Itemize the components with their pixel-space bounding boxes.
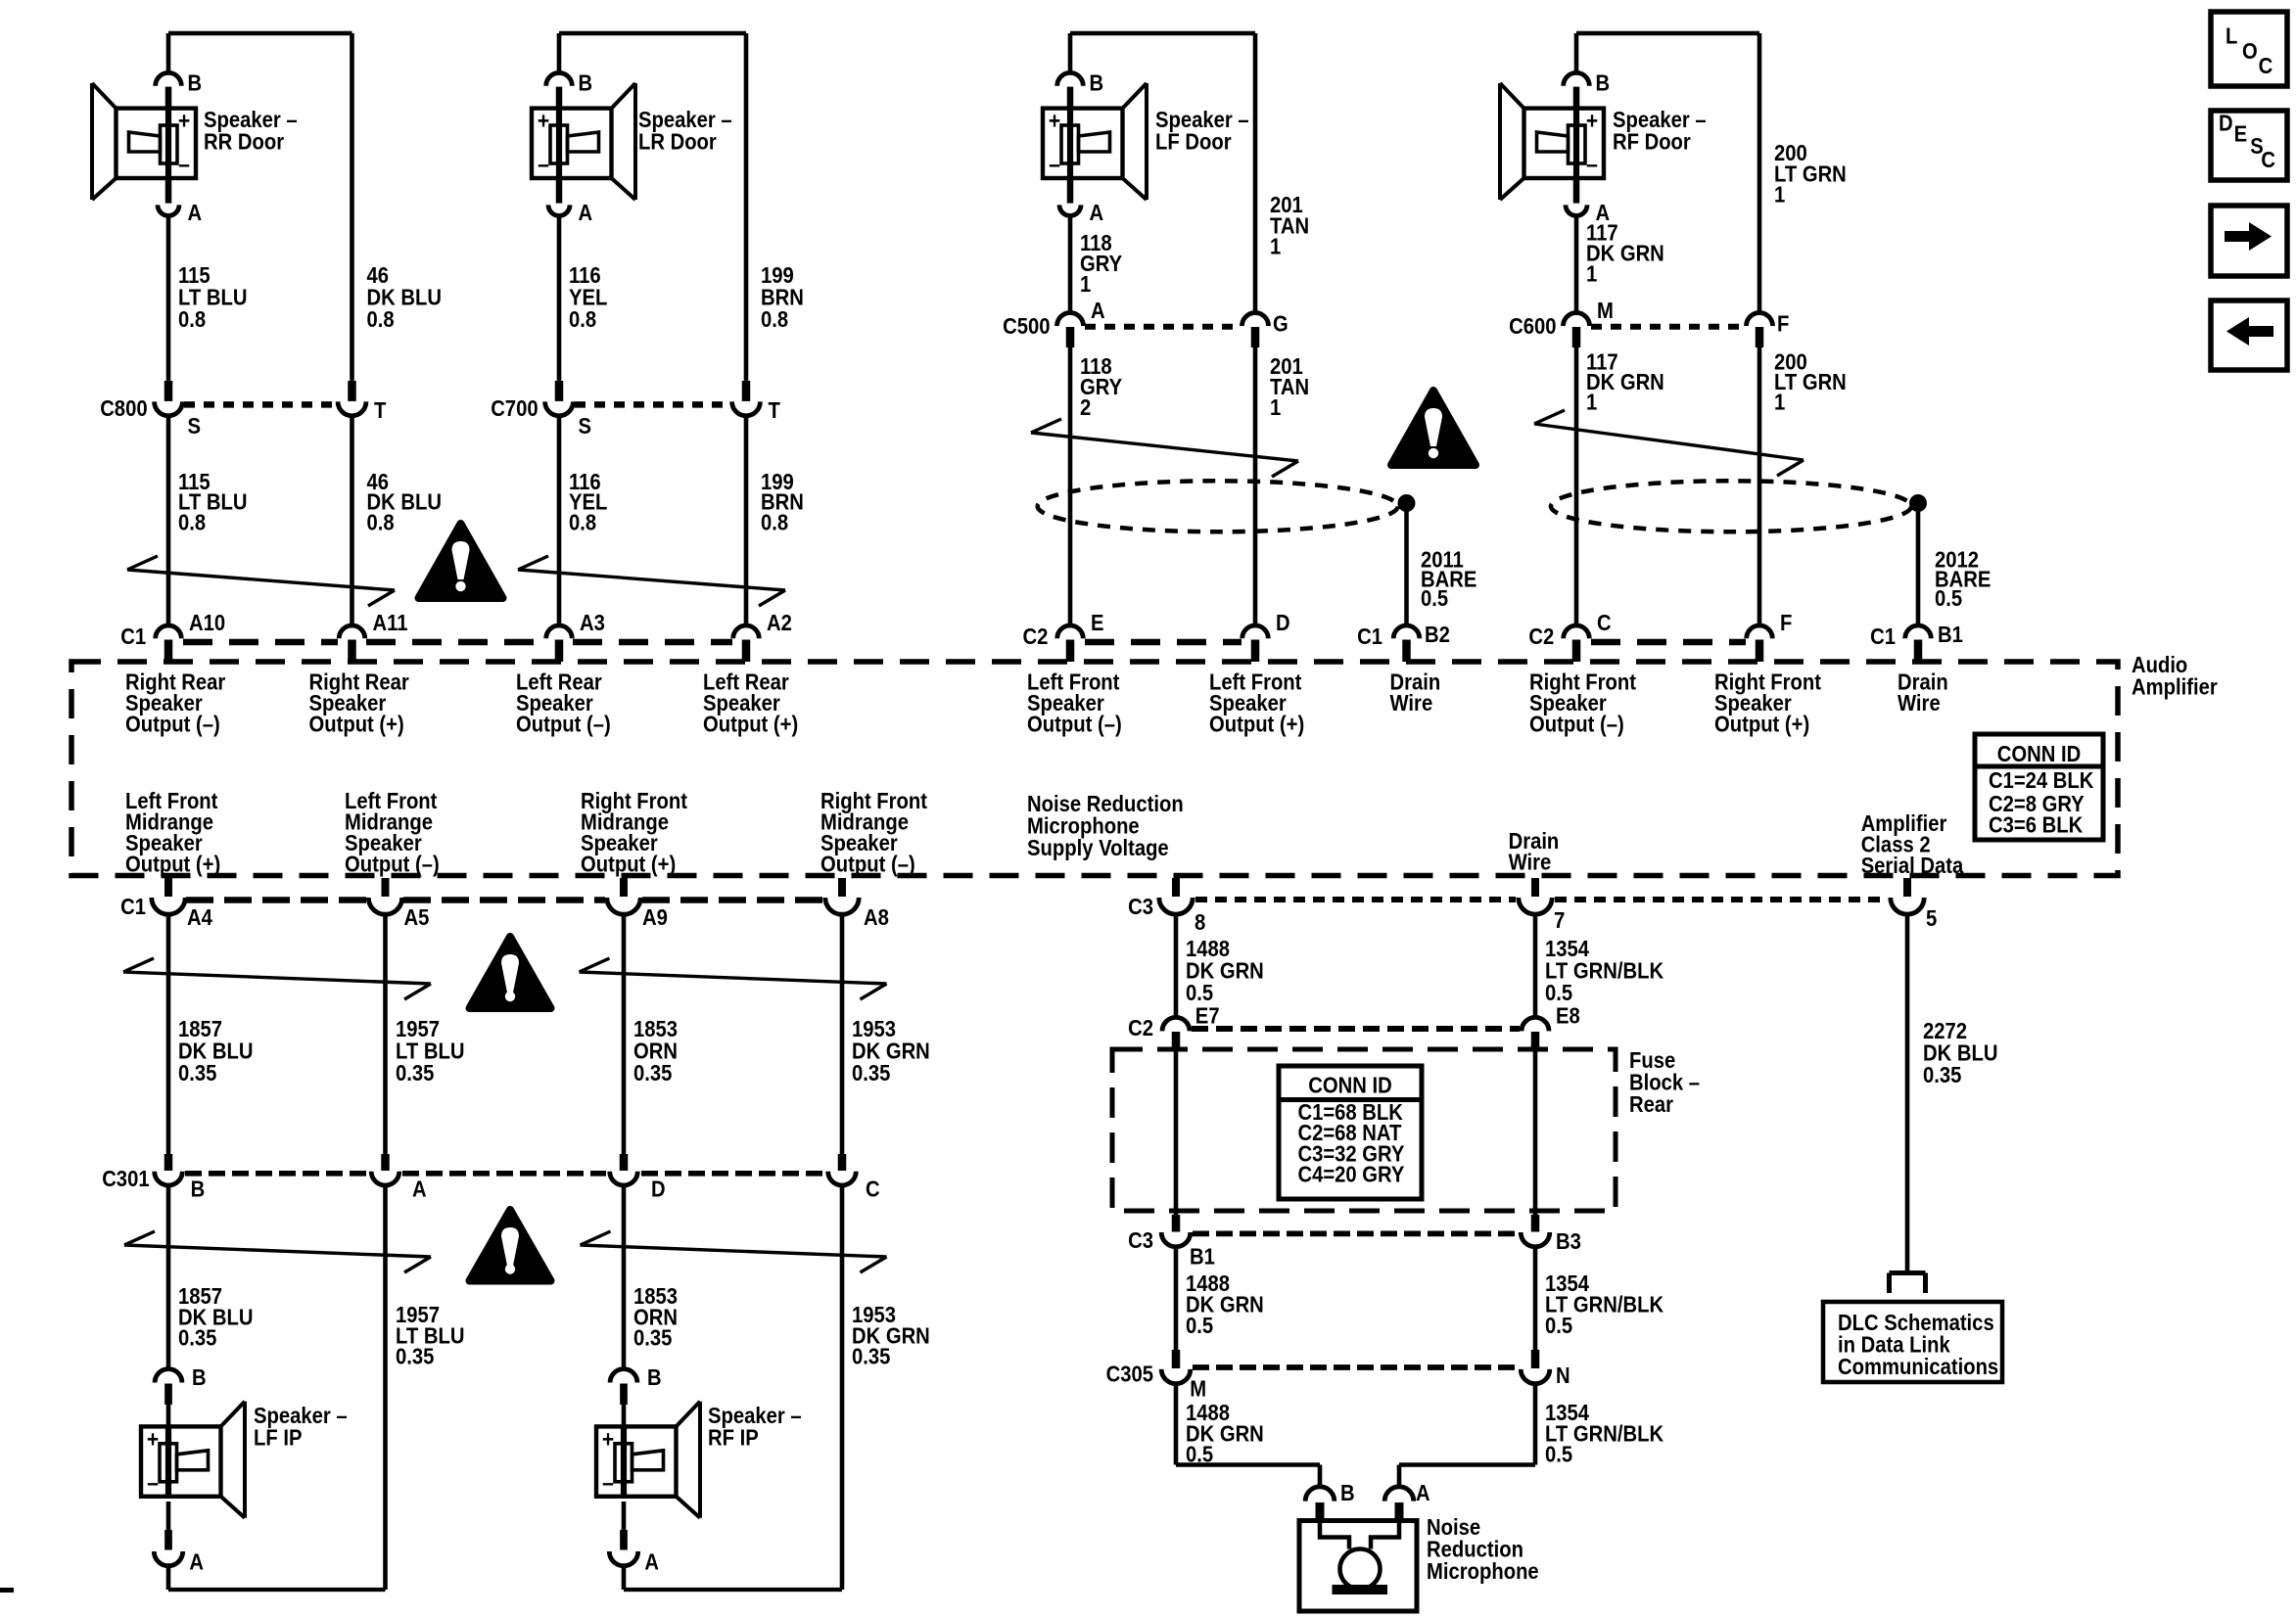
svg-text:G: G bbox=[1273, 311, 1289, 337]
svg-text:0.8: 0.8 bbox=[178, 306, 206, 332]
audio amplifier box bbox=[71, 662, 2118, 876]
svg-text:A11: A11 bbox=[373, 610, 408, 635]
svg-text:0.5: 0.5 bbox=[1186, 1442, 1213, 1467]
wire label 1354 c bbox=[1545, 1400, 1663, 1467]
amplifier pin label Left Front Midrange (+) bbox=[125, 788, 220, 877]
svg-text:LF Door: LF Door bbox=[1155, 129, 1232, 155]
svg-text:8: 8 bbox=[1195, 909, 1205, 935]
connector C800 bbox=[100, 381, 386, 439]
svg-text:0.35: 0.35 bbox=[178, 1060, 217, 1086]
svg-text:1: 1 bbox=[1586, 261, 1597, 287]
shield ellipse RF bbox=[1551, 481, 1927, 531]
wire label 1488 b bbox=[1186, 1270, 1264, 1338]
wire below LF IP bbox=[166, 1565, 171, 1590]
connector C2 amplifier pins E D bbox=[1023, 610, 1290, 662]
twisted wires arrow RR bbox=[127, 556, 395, 606]
svg-text:0.8: 0.8 bbox=[761, 509, 788, 534]
drain wire 2012 BARE bbox=[1918, 503, 1991, 626]
svg-text:0.8: 0.8 bbox=[761, 306, 788, 332]
svg-text:B: B bbox=[1090, 69, 1104, 95]
svg-text:Output (–): Output (–) bbox=[345, 852, 440, 877]
connector pin B LR Door bbox=[546, 69, 592, 108]
svg-text:C: C bbox=[866, 1177, 880, 1202]
label speaker LR Door bbox=[638, 107, 732, 155]
connector pin B RF Door bbox=[1564, 69, 1610, 108]
svg-text:C305: C305 bbox=[1106, 1362, 1154, 1387]
wire 1354 run 1 bbox=[1533, 914, 1538, 1019]
svg-text:E: E bbox=[1091, 610, 1104, 635]
amplifier pin label Right Front Midrange (+) bbox=[581, 788, 687, 877]
svg-text:0.35: 0.35 bbox=[396, 1060, 435, 1086]
wire label 1953 upper bbox=[852, 1016, 930, 1086]
connector pin 5 bbox=[1891, 878, 1938, 931]
svg-text:T: T bbox=[374, 397, 386, 423]
amplifier pin label Right Rear Output (+) bbox=[309, 670, 409, 737]
svg-text:Output (–): Output (–) bbox=[1529, 712, 1624, 737]
svg-text:D: D bbox=[651, 1177, 666, 1202]
connector pin A RR Door bbox=[158, 180, 202, 225]
svg-text:1: 1 bbox=[1774, 390, 1785, 415]
twisted wires arrow LF bbox=[1031, 419, 1298, 477]
noise reduction microphone bbox=[1299, 1520, 1417, 1611]
connector pin B LF IP bbox=[155, 1364, 207, 1405]
svg-text:C: C bbox=[2261, 147, 2275, 172]
label noise reduction microphone bbox=[1427, 1514, 1539, 1584]
svg-text:C1: C1 bbox=[120, 894, 146, 919]
svg-text:E7: E7 bbox=[1195, 1003, 1220, 1029]
shield ellipse LF bbox=[1038, 481, 1416, 531]
connector C3 pin 8 bbox=[1128, 878, 1205, 935]
svg-text:A: A bbox=[188, 200, 203, 225]
amplifier pin label Left Rear Output (–) bbox=[516, 670, 611, 737]
svg-text:+: + bbox=[1049, 109, 1060, 135]
svg-text:S: S bbox=[579, 413, 592, 439]
connector pin A LF Door bbox=[1059, 180, 1103, 225]
svg-text:–: – bbox=[538, 152, 549, 178]
svg-text:1: 1 bbox=[1270, 234, 1281, 259]
wire into LF IP bbox=[166, 1405, 171, 1426]
svg-text:Amplifier: Amplifier bbox=[2132, 674, 2218, 700]
svg-text:C3: C3 bbox=[1128, 894, 1153, 919]
speaker RF IP bbox=[596, 1402, 700, 1518]
svg-text:Supply Voltage: Supply Voltage bbox=[1027, 835, 1169, 860]
warning triangle 3 bbox=[470, 937, 551, 1008]
arrow left box bbox=[2211, 300, 2287, 370]
svg-text:C1: C1 bbox=[1870, 624, 1896, 649]
amplifier pin label Right Front Output (+) bbox=[1714, 670, 1821, 737]
amplifier pin label Left Rear Output (+) bbox=[703, 670, 798, 737]
svg-text:A9: A9 bbox=[642, 904, 668, 930]
svg-text:Output (–): Output (–) bbox=[1027, 712, 1122, 737]
connector C1 pin B2 drain bbox=[1357, 622, 1450, 662]
svg-text:+: + bbox=[538, 109, 549, 135]
svg-text:B: B bbox=[647, 1364, 662, 1390]
svg-text:C3=6 BLK: C3=6 BLK bbox=[1989, 812, 2084, 838]
DLC schematics box bbox=[1823, 1302, 2002, 1382]
connector C3 pins B1 B3 bbox=[1128, 1215, 1581, 1270]
twisted wires arrow LR bbox=[518, 556, 785, 606]
amplifier pin label Noise Reduction Microphone Supply Voltage bbox=[1027, 791, 1184, 860]
svg-text:A10: A10 bbox=[189, 610, 225, 635]
wire label 200 lower bbox=[1774, 349, 1847, 415]
desc box bbox=[2211, 111, 2287, 180]
svg-text:1: 1 bbox=[1080, 271, 1091, 297]
svg-text:Output (+): Output (+) bbox=[1714, 712, 1809, 737]
wire label 200 bbox=[1774, 140, 1847, 208]
connector pin B LF Door bbox=[1057, 69, 1103, 108]
fuse block box bbox=[1112, 1049, 1616, 1211]
amplifier pin label Right Front Midrange (-) bbox=[820, 788, 927, 877]
wire label 1354 a bbox=[1545, 936, 1663, 1005]
wire label 1853 lower bbox=[633, 1283, 678, 1351]
warning triangle 1 bbox=[419, 524, 503, 598]
svg-text:A2: A2 bbox=[767, 610, 792, 635]
wire loop bottom LF IP bbox=[168, 1588, 386, 1592]
svg-text:0.5: 0.5 bbox=[1421, 585, 1448, 611]
amplifier pin label Right Front Output (–) bbox=[1529, 670, 1636, 737]
page tick bbox=[0, 1588, 14, 1593]
wire label 1953 lower bbox=[852, 1302, 930, 1369]
connector C2 pins E7 E8 bbox=[1128, 1003, 1580, 1050]
speaker RR Door bbox=[92, 83, 196, 200]
svg-text:C2: C2 bbox=[1023, 624, 1049, 649]
svg-text:C2: C2 bbox=[1128, 1015, 1153, 1040]
svg-text:Output (–): Output (–) bbox=[516, 712, 611, 737]
connector pin B RF IP bbox=[610, 1364, 662, 1405]
svg-text:A: A bbox=[1416, 1480, 1430, 1505]
svg-text:DK GRN: DK GRN bbox=[1586, 241, 1664, 266]
svg-text:0.5: 0.5 bbox=[1545, 980, 1572, 1005]
svg-text:E8: E8 bbox=[1556, 1003, 1580, 1029]
svg-text:C: C bbox=[1597, 610, 1612, 635]
svg-text:B: B bbox=[191, 1177, 206, 1202]
svg-text:A3: A3 bbox=[580, 610, 605, 635]
svg-text:CONN ID: CONN ID bbox=[1997, 741, 2082, 766]
svg-text:LF IP: LF IP bbox=[254, 1425, 303, 1451]
svg-text:–: – bbox=[178, 152, 190, 178]
amplifier pin label Amplifier Class 2 Serial Data bbox=[1861, 810, 1964, 878]
svg-text:0.8: 0.8 bbox=[367, 306, 395, 332]
wire label 201 lower bbox=[1270, 353, 1309, 420]
svg-text:F: F bbox=[1780, 610, 1792, 635]
conn id table fuse block bbox=[1279, 1066, 1422, 1199]
svg-text:Output (+): Output (+) bbox=[125, 852, 220, 877]
wire LF Door to amplifier bbox=[1070, 347, 1255, 626]
wire 1354 run 4 bbox=[1399, 1384, 1535, 1489]
svg-text:B: B bbox=[1340, 1480, 1355, 1505]
svg-text:Microphone: Microphone bbox=[1427, 1558, 1539, 1584]
connector pin A LF IP bbox=[154, 1501, 204, 1575]
svg-text:A: A bbox=[189, 1549, 204, 1575]
connector C2 amplifier pins C F bbox=[1528, 610, 1792, 662]
wire label 199 bbox=[761, 262, 804, 332]
svg-text:Output (+): Output (+) bbox=[1209, 712, 1304, 737]
warning triangle 4 bbox=[470, 1210, 551, 1281]
speaker LF IP bbox=[141, 1402, 245, 1518]
wire label 46 lower bbox=[367, 469, 443, 534]
svg-text:1: 1 bbox=[1586, 390, 1597, 415]
svg-text:E: E bbox=[2234, 121, 2248, 147]
svg-text:Wire: Wire bbox=[1898, 690, 1941, 716]
wire 1488 run 4 bbox=[1176, 1384, 1320, 1489]
svg-text:C700: C700 bbox=[491, 395, 538, 421]
svg-text:C3: C3 bbox=[1128, 1227, 1153, 1253]
svg-text:B3: B3 bbox=[1556, 1228, 1581, 1254]
wire 1853 lower run bbox=[622, 1185, 627, 1369]
svg-text:RF IP: RF IP bbox=[708, 1425, 759, 1451]
svg-text:C1: C1 bbox=[1357, 624, 1382, 649]
connector C700 bbox=[491, 381, 780, 439]
wire LF Door left bbox=[1068, 215, 1073, 311]
connector pin A microphone bbox=[1384, 1480, 1429, 1520]
label fuse block bbox=[1629, 1047, 1700, 1117]
wire label 1957 upper bbox=[396, 1016, 465, 1086]
connector C1 amplifier pins A10 A11 A3 A2 bbox=[120, 610, 792, 662]
svg-text:D: D bbox=[1276, 610, 1290, 635]
wire label 1857 upper bbox=[178, 1016, 254, 1086]
svg-text:A: A bbox=[1091, 298, 1105, 323]
svg-text:0.5: 0.5 bbox=[1186, 1313, 1213, 1338]
svg-text:Output (–): Output (–) bbox=[125, 712, 220, 737]
connector C600 bbox=[1509, 298, 1789, 347]
svg-text:B1: B1 bbox=[1938, 622, 1963, 647]
label speaker RF IP bbox=[708, 1403, 802, 1451]
wire below RF IP bbox=[622, 1565, 627, 1590]
label speaker LF IP bbox=[254, 1403, 348, 1451]
svg-text:7: 7 bbox=[1554, 907, 1565, 933]
wire 1957 lower run bbox=[383, 1185, 388, 1590]
wire into RF IP bbox=[622, 1405, 627, 1426]
svg-text:F: F bbox=[1777, 311, 1789, 337]
drain wire 2011 BARE bbox=[1407, 503, 1477, 626]
svg-text:Serial Data: Serial Data bbox=[1861, 853, 1964, 878]
wire loop top LR Door bbox=[559, 33, 746, 381]
svg-text:–: – bbox=[602, 1470, 614, 1497]
wire 1488 run 3 bbox=[1174, 1247, 1179, 1352]
svg-text:B: B bbox=[1596, 69, 1611, 95]
connector C1 bottom pins A4 A5 A9 A8 bbox=[120, 878, 889, 930]
svg-text:B: B bbox=[579, 69, 593, 95]
connector pin A LR Door bbox=[548, 180, 592, 225]
svg-text:0.5: 0.5 bbox=[1186, 980, 1213, 1005]
svg-text:+: + bbox=[147, 1426, 159, 1453]
connector pin A RF Door bbox=[1566, 180, 1610, 225]
svg-text:Wire: Wire bbox=[1390, 690, 1433, 716]
svg-text:L: L bbox=[2226, 23, 2237, 49]
svg-text:B: B bbox=[188, 69, 203, 95]
svg-text:S: S bbox=[188, 413, 202, 439]
svg-text:Output (+): Output (+) bbox=[703, 712, 798, 737]
svg-text:M: M bbox=[1190, 1375, 1206, 1401]
svg-text:1: 1 bbox=[1270, 394, 1281, 420]
svg-text:B1: B1 bbox=[1190, 1244, 1215, 1270]
wire loop top LF Door bbox=[1070, 33, 1255, 311]
svg-text:–: – bbox=[1586, 152, 1598, 178]
wire RR Door to amplifier bbox=[168, 416, 352, 626]
svg-text:0.35: 0.35 bbox=[633, 1325, 673, 1351]
wire label 1857 lower bbox=[178, 1283, 254, 1351]
svg-text:–: – bbox=[147, 1470, 159, 1497]
wire 1857 run bbox=[166, 914, 171, 1155]
connector C1 pin B1 drain bbox=[1870, 622, 1963, 662]
wire 1354 run 3 bbox=[1533, 1247, 1538, 1352]
conn id table amplifier bbox=[1975, 734, 2103, 840]
svg-text:A: A bbox=[644, 1549, 659, 1575]
label speaker LF Door bbox=[1155, 107, 1249, 155]
svg-text:C: C bbox=[2259, 53, 2273, 78]
amplifier pin label Left Front Midrange (-) bbox=[345, 788, 440, 877]
speaker LF Door bbox=[1043, 83, 1147, 200]
svg-text:Rear: Rear bbox=[1629, 1091, 1673, 1117]
twisted wires arrow RF bbox=[1534, 410, 1804, 476]
connector pin B microphone bbox=[1305, 1480, 1354, 1520]
svg-text:1: 1 bbox=[1774, 182, 1785, 208]
svg-text:D: D bbox=[2219, 111, 2233, 136]
wire label 2272 bbox=[1923, 1018, 1998, 1087]
svg-text:Output (+): Output (+) bbox=[581, 852, 676, 877]
svg-text:+: + bbox=[178, 109, 190, 135]
wire label 118 bbox=[1080, 230, 1122, 297]
wire label 115 bbox=[178, 262, 248, 332]
svg-text:0.8: 0.8 bbox=[569, 306, 596, 332]
wire label 199 lower bbox=[761, 469, 804, 534]
amplifier pin label Drain Wire bottom bbox=[1509, 828, 1560, 874]
wire label 1354 b bbox=[1545, 1270, 1663, 1338]
wire 1857 lower run bbox=[166, 1185, 171, 1369]
svg-text:M: M bbox=[1597, 298, 1614, 323]
wire label 1488 a bbox=[1186, 936, 1264, 1005]
svg-text:2: 2 bbox=[1080, 394, 1091, 420]
wire 1957 run bbox=[383, 914, 388, 1155]
svg-text:0.35: 0.35 bbox=[396, 1344, 435, 1369]
svg-text:0.5: 0.5 bbox=[1935, 585, 1962, 611]
svg-text:LR Door: LR Door bbox=[638, 129, 717, 155]
connector C500 bbox=[1003, 298, 1289, 347]
amplifier pin label Right Rear Output (–) bbox=[125, 670, 225, 737]
wire loop bottom RF IP bbox=[624, 1588, 842, 1592]
svg-text:RR Door: RR Door bbox=[204, 129, 284, 155]
wire label 116 bbox=[569, 262, 607, 332]
svg-text:Output (–): Output (–) bbox=[820, 852, 915, 877]
svg-text:C4=20 GRY: C4=20 GRY bbox=[1298, 1162, 1405, 1187]
svg-text:0.35: 0.35 bbox=[178, 1325, 217, 1351]
svg-text:A: A bbox=[579, 200, 593, 225]
wire 1488 run 2 bbox=[1174, 1050, 1179, 1216]
svg-text:C301: C301 bbox=[102, 1166, 150, 1191]
speaker RF Door bbox=[1500, 83, 1604, 200]
amplifier pin label Drain Wire bbox=[1390, 670, 1441, 716]
label speaker RF Door bbox=[1613, 107, 1707, 155]
svg-text:C1=24 BLK: C1=24 BLK bbox=[1989, 767, 2094, 793]
svg-text:–: – bbox=[1049, 152, 1060, 178]
wire loop top RR Door bbox=[168, 33, 352, 381]
label audio amplifier bbox=[2132, 652, 2218, 700]
svg-text:O: O bbox=[2242, 38, 2258, 64]
svg-text:0.35: 0.35 bbox=[852, 1344, 891, 1369]
svg-text:0.8: 0.8 bbox=[569, 509, 596, 534]
twisted wires arrow midrange left upper bbox=[123, 958, 431, 999]
svg-text:A4: A4 bbox=[187, 904, 212, 930]
wire LR Door to amplifier bbox=[559, 416, 746, 626]
wire RR Door left bbox=[166, 215, 171, 381]
svg-text:B: B bbox=[192, 1364, 207, 1390]
svg-text:A: A bbox=[412, 1177, 427, 1202]
connector C301 pins B A D C bbox=[102, 1154, 879, 1202]
connector pin B RR Door bbox=[156, 69, 202, 108]
svg-text:0.5: 0.5 bbox=[1545, 1442, 1572, 1467]
wire LR Door left bbox=[557, 215, 562, 381]
svg-text:+: + bbox=[1586, 109, 1598, 135]
wire 1953 run bbox=[840, 914, 845, 1155]
wire 1953 lower run bbox=[840, 1185, 845, 1590]
wire RF Door to amplifier bbox=[1576, 347, 1759, 626]
svg-text:C500: C500 bbox=[1003, 313, 1050, 339]
loc box bbox=[2211, 12, 2287, 86]
amplifier pin label Left Front Output (+) bbox=[1209, 670, 1304, 737]
wire label 117 lower bbox=[1586, 349, 1664, 415]
wire label 118 lower bbox=[1080, 353, 1122, 420]
wire loop top RF Door bbox=[1576, 33, 1759, 311]
twisted wires arrow midrange right upper bbox=[580, 958, 887, 999]
warning triangle 2 bbox=[1391, 391, 1476, 465]
twisted wires arrow midrange right lower bbox=[581, 1231, 887, 1272]
wire label 46 bbox=[367, 262, 443, 332]
wire 1853 run bbox=[622, 914, 627, 1155]
svg-text:C1: C1 bbox=[120, 624, 146, 649]
svg-text:0.35: 0.35 bbox=[852, 1060, 891, 1086]
svg-text:A8: A8 bbox=[864, 904, 889, 930]
svg-text:RF Door: RF Door bbox=[1613, 129, 1691, 155]
arrow right box bbox=[2211, 206, 2287, 276]
wire 1488 run 1 bbox=[1174, 914, 1179, 1019]
wire RF Door left bbox=[1574, 215, 1579, 311]
svg-text:0.8: 0.8 bbox=[178, 509, 206, 534]
svg-text:N: N bbox=[1556, 1363, 1570, 1388]
connector C305 pins M N bbox=[1106, 1350, 1570, 1401]
wire 2272 run bbox=[1905, 914, 1910, 1270]
svg-text:0.35: 0.35 bbox=[633, 1060, 673, 1086]
twisted wires arrow midrange left lower bbox=[124, 1231, 431, 1272]
wire label 201 bbox=[1270, 192, 1309, 259]
svg-text:0.8: 0.8 bbox=[367, 509, 395, 534]
speaker LR Door bbox=[532, 83, 635, 200]
wire label 1957 lower bbox=[396, 1302, 465, 1369]
svg-text:A: A bbox=[1090, 200, 1104, 225]
wire label 117 bbox=[1586, 220, 1664, 287]
connector to DLC bbox=[1890, 1273, 1926, 1294]
amplifier pin label Drain Wire bbox=[1898, 670, 1948, 716]
svg-text:C600: C600 bbox=[1509, 313, 1556, 339]
wire label 1853 upper bbox=[633, 1016, 678, 1086]
svg-text:5: 5 bbox=[1926, 905, 1937, 931]
svg-text:Wire: Wire bbox=[1509, 849, 1552, 874]
wire label 115 lower bbox=[178, 469, 248, 534]
svg-text:C800: C800 bbox=[100, 395, 147, 421]
svg-text:+: + bbox=[602, 1426, 614, 1453]
svg-text:CONN ID: CONN ID bbox=[1308, 1073, 1392, 1098]
svg-text:DK GRN: DK GRN bbox=[1586, 369, 1664, 394]
svg-text:0.35: 0.35 bbox=[1923, 1062, 1962, 1087]
svg-text:Output (+): Output (+) bbox=[309, 712, 404, 737]
connector C3 pin 7 bbox=[1519, 878, 1566, 933]
svg-text:0.5: 0.5 bbox=[1545, 1313, 1572, 1338]
svg-text:C2: C2 bbox=[1528, 624, 1554, 649]
wire 1354 run 2 bbox=[1533, 1050, 1538, 1216]
amplifier pin label Left Front Output (–) bbox=[1027, 670, 1122, 737]
svg-text:T: T bbox=[769, 397, 780, 423]
svg-text:Communications: Communications bbox=[1838, 1354, 1998, 1379]
svg-text:A5: A5 bbox=[404, 904, 430, 930]
